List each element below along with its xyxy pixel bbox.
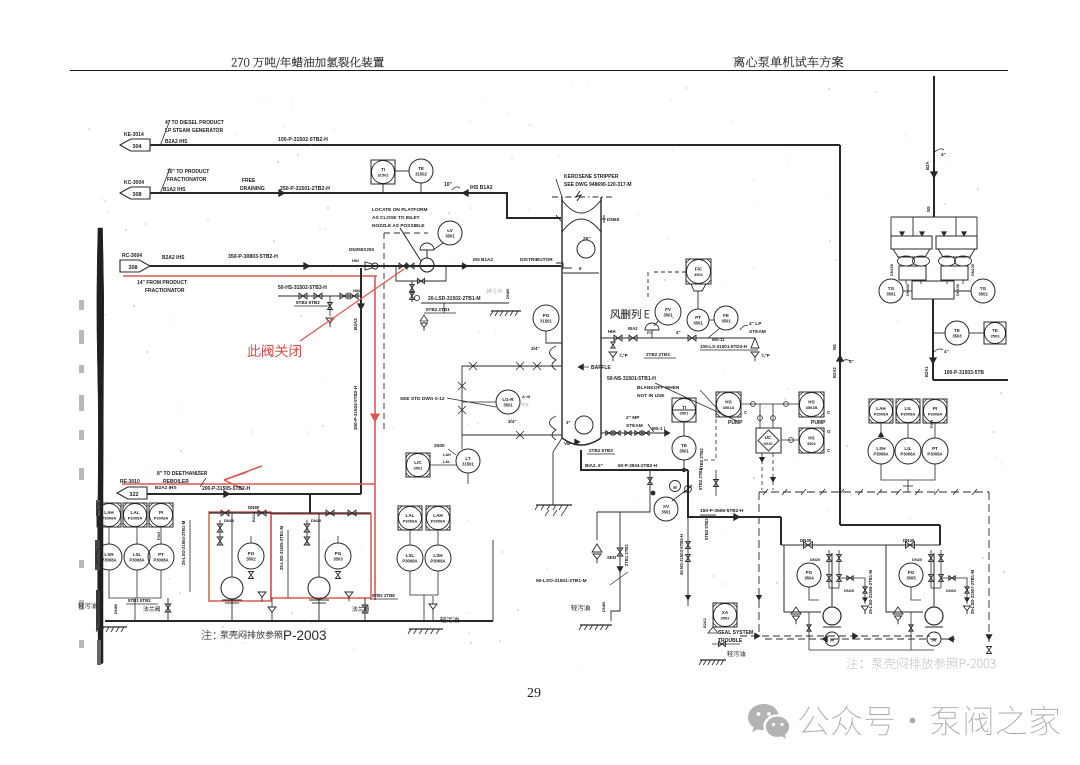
svg-text:308: 308: [128, 265, 137, 271]
svg-text:LAH: LAH: [876, 406, 886, 411]
svg-text:3501: 3501: [694, 272, 704, 277]
svg-text:3503: 3503: [991, 334, 1001, 339]
svg-text:RE-3010: RE-3010: [120, 479, 140, 485]
svg-text:20-LSD-31502-2TB1-M: 20-LSD-31502-2TB1-M: [428, 296, 481, 302]
svg-text:DRAINING: DRAINING: [240, 186, 265, 192]
svg-text:3502: 3502: [246, 557, 256, 562]
svg-text:DN350X200: DN350X200: [349, 247, 374, 252]
svg-text:B2A1: B2A1: [924, 366, 929, 377]
svg-text:3504: 3504: [804, 576, 814, 581]
svg-text:B2A2: B2A2: [703, 618, 707, 628]
svg-text:25-LSD-31505-2TB1-M: 25-LSD-31505-2TB1-M: [279, 526, 284, 570]
svg-text:3501: 3501: [679, 449, 689, 454]
svg-text:HIN: HIN: [352, 258, 359, 263]
svg-text:31501: 31501: [540, 319, 552, 324]
svg-text:5TB3 5TB2: 5TB3 5TB2: [704, 518, 709, 540]
svg-text:LSH: LSH: [876, 446, 886, 451]
svg-text:31502: 31502: [377, 173, 389, 178]
svg-text:PG: PG: [335, 551, 342, 556]
svg-text:PUMP: PUMP: [728, 420, 743, 426]
svg-text:LIC: LIC: [414, 460, 422, 465]
svg-text:KE-3014: KE-3014: [124, 132, 144, 138]
svg-text:50-HS-31502-5TB3-H: 50-HS-31502-5TB3-H: [278, 285, 327, 291]
svg-text:308: 308: [132, 192, 141, 198]
svg-text:4": 4": [849, 359, 854, 364]
svg-text:TE: TE: [992, 328, 998, 333]
svg-text:HIH: HIH: [608, 329, 616, 334]
svg-text:3503: 3503: [952, 334, 962, 339]
svg-text:DN40: DN40: [903, 538, 915, 543]
svg-text:3505: 3505: [906, 576, 916, 581]
svg-text:FREE: FREE: [242, 178, 256, 184]
svg-text:322: 322: [129, 492, 138, 498]
svg-text:DN80: DN80: [601, 601, 606, 612]
svg-text:VB: VB: [564, 441, 571, 446]
svg-text:4": 4": [676, 330, 681, 335]
svg-text:TE: TE: [954, 328, 960, 333]
svg-text:DN20: DN20: [912, 557, 923, 562]
svg-text:2TB2 5TB3: 2TB2 5TB3: [589, 448, 613, 453]
svg-text:NS: NS: [832, 344, 837, 350]
svg-text:P3008A: P3008A: [129, 558, 144, 563]
svg-text:PAH: PAH: [156, 532, 161, 540]
svg-text:31502: 31502: [415, 172, 427, 177]
svg-text:LIL: LIL: [905, 406, 912, 411]
svg-text:100-P-31502-5TB2-H: 100-P-31502-5TB2-H: [278, 137, 328, 143]
svg-text:PG: PG: [806, 570, 813, 575]
svg-text:3501: 3501: [503, 403, 513, 408]
svg-text:P3008A: P3008A: [102, 516, 117, 521]
svg-text:DN100: DN100: [956, 284, 960, 296]
svg-text:XA: XA: [722, 610, 729, 615]
svg-text:TE: TE: [681, 443, 687, 448]
svg-text:REBOILER: REBOILER: [163, 479, 189, 485]
svg-text:B2A2: B2A2: [832, 367, 837, 378]
svg-text:P3008A: P3008A: [901, 412, 916, 417]
svg-text:3501: 3501: [807, 441, 817, 446]
svg-text:LIL: LIL: [905, 446, 912, 451]
svg-text:BAFFLE: BAFFLE: [591, 365, 611, 371]
svg-text:3501: 3501: [886, 292, 896, 297]
svg-text:PAH: PAH: [929, 420, 934, 428]
svg-text:LOCATE ON PLATFORM: LOCATE ON PLATFORM: [372, 207, 428, 213]
svg-text:200-P-31505-5TB2-H: 200-P-31505-5TB2-H: [202, 486, 250, 492]
svg-text:B2A2 IHS: B2A2 IHS: [162, 255, 185, 261]
svg-text:25-LSO-31504-2TB1-M: 25-LSO-31504-2TB1-M: [181, 520, 186, 565]
svg-text:P3008A: P3008A: [928, 412, 943, 417]
svg-text:3501A: 3501A: [723, 405, 735, 410]
svg-text:DN20: DN20: [224, 518, 235, 523]
svg-text:TG: TG: [980, 286, 987, 291]
svg-text:LAH: LAH: [433, 513, 443, 518]
svg-text:DN100: DN100: [971, 264, 975, 276]
svg-text:100-P-31503-5TB: 100-P-31503-5TB: [944, 370, 984, 376]
svg-text:P3008A: P3008A: [154, 516, 169, 521]
svg-text:10" TO PRODUCT: 10" TO PRODUCT: [167, 169, 209, 175]
svg-text:AS CLOSE TO INLET: AS CLOSE TO INLET: [372, 215, 420, 221]
svg-text:PT: PT: [932, 446, 938, 451]
svg-text:TI: TI: [381, 167, 385, 172]
svg-text:3502: 3502: [978, 292, 988, 297]
svg-text:MS-11: MS-11: [712, 337, 725, 342]
svg-text:14" FROM PRODUCT: 14" FROM PRODUCT: [137, 280, 187, 286]
svg-text:KC-3004: KC-3004: [124, 180, 144, 186]
svg-text:25-LSD-31506-2TB1-M: 25-LSD-31506-2TB1-M: [868, 570, 873, 614]
svg-text:350-P-30803-5TB2-H: 350-P-30803-5TB2-H: [228, 254, 278, 260]
svg-text:P3008A: P3008A: [874, 412, 889, 417]
svg-text:304: 304: [132, 144, 142, 150]
svg-text:P3008A: P3008A: [431, 519, 446, 524]
svg-text:PUMP: PUMP: [811, 420, 826, 426]
svg-text:B2A: B2A: [925, 162, 930, 170]
svg-text:MS B1A2: MS B1A2: [473, 257, 493, 262]
svg-text:C: C: [827, 410, 831, 415]
svg-text:LAH: LAH: [443, 453, 451, 457]
svg-text:FIC: FIC: [695, 267, 703, 272]
svg-text:TG: TG: [888, 286, 895, 291]
svg-text:B1A2 IHS: B1A2 IHS: [163, 187, 186, 193]
svg-text:BIA2: BIA2: [628, 326, 638, 331]
svg-text:3501: 3501: [721, 319, 731, 324]
svg-text:DN50: DN50: [607, 217, 620, 223]
svg-text:¾"P: ¾"P: [619, 353, 628, 358]
svg-text:PT: PT: [158, 552, 164, 557]
svg-text:LSL: LSL: [133, 552, 142, 557]
svg-text:4": 4": [941, 152, 946, 157]
svg-text:LT: LT: [465, 456, 470, 461]
svg-text:¾"P: ¾"P: [761, 353, 770, 358]
svg-text:XV: XV: [663, 504, 670, 509]
svg-text:P3008A: P3008A: [101, 558, 116, 563]
svg-text:HS: HS: [808, 436, 814, 441]
svg-text:4" LP: 4" LP: [749, 321, 762, 327]
svg-text:TE: TE: [418, 166, 424, 171]
svg-text:25-LSD-31507-2TB1-M: 25-LSD-31507-2TB1-M: [970, 570, 975, 614]
svg-text:3/4": 3/4": [508, 419, 517, 424]
svg-text:PG: PG: [908, 570, 915, 575]
svg-text:NS: NS: [926, 206, 931, 212]
svg-text:NOT IN USE: NOT IN USE: [637, 393, 665, 399]
svg-text:5TB1 5TB2: 5TB1 5TB2: [128, 598, 151, 603]
svg-text:LP STEAM GENERATOR: LP STEAM GENERATOR: [165, 128, 223, 134]
svg-text:3501: 3501: [445, 234, 455, 239]
svg-text:2TB2 2TB3: 2TB2 2TB3: [646, 352, 670, 357]
svg-text:50-NS-31501-5TB1-H: 50-NS-31501-5TB1-H: [607, 376, 656, 382]
svg-text:B2A2 IHS: B2A2 IHS: [155, 485, 177, 491]
svg-text:SEE STD DWG 0-12: SEE STD DWG 0-12: [400, 396, 445, 402]
svg-text:STEAM: STEAM: [749, 329, 766, 335]
svg-text:SEN: SEN: [607, 555, 616, 560]
svg-text:250-P-31501-2TB2-H: 250-P-31501-2TB2-H: [280, 186, 330, 192]
svg-text:B2A2: B2A2: [251, 511, 256, 522]
svg-text:C: C: [827, 448, 831, 453]
svg-text:LAL: LAL: [443, 460, 451, 464]
svg-text:50-P-3504-2TB2-H: 50-P-3504-2TB2-H: [618, 463, 658, 468]
svg-text:RC-3004: RC-3004: [122, 253, 142, 259]
svg-text:LSL: LSL: [406, 553, 415, 558]
svg-text:2000: 2000: [434, 443, 445, 449]
svg-text:DN20: DN20: [946, 588, 957, 593]
svg-text:DISTRIBUTOR: DISTRIBUTOR: [520, 257, 553, 263]
svg-text:P3008A: P3008A: [128, 516, 143, 521]
svg-text:DN80: DN80: [248, 505, 260, 510]
svg-text:HS: HS: [808, 400, 814, 405]
svg-text:5TB3 5TB2: 5TB3 5TB2: [296, 300, 320, 305]
svg-text:TROUBLE: TROUBLE: [718, 638, 743, 644]
svg-text:P-2003: P-2003: [283, 628, 327, 643]
svg-text:DN20: DN20: [844, 588, 855, 593]
svg-text:2TB1 2TB2: 2TB1 2TB2: [624, 544, 629, 566]
svg-text:10": 10": [444, 182, 453, 188]
svg-text:50-LSO-31501-2TB1-M: 50-LSO-31501-2TB1-M: [536, 578, 587, 584]
svg-text:DN40: DN40: [800, 538, 812, 543]
svg-text:DN80: DN80: [505, 288, 510, 299]
svg-text:HIN: HIN: [353, 288, 360, 293]
svg-text:LAH: LAH: [104, 510, 114, 515]
svg-text:8" TO DEETHANIZER: 8" TO DEETHANIZER: [157, 471, 208, 477]
svg-text:SEAL SYSTEM: SEAL SYSTEM: [718, 630, 753, 636]
svg-text:LSH: LSH: [433, 553, 443, 558]
svg-text:300-P-31504-5TB2-H: 300-P-31504-5TB2-H: [353, 385, 358, 430]
svg-text:PT: PT: [695, 315, 701, 320]
svg-text:100-LS-31501-5TD3-H: 100-LS-31501-5TD3-H: [700, 344, 748, 349]
svg-text:UC: UC: [765, 435, 772, 440]
svg-text:31501: 31501: [462, 462, 474, 467]
svg-text:150-P-3506-5TB2-H: 150-P-3506-5TB2-H: [700, 508, 744, 514]
svg-text:TI: TI: [682, 405, 686, 410]
svg-text:DN80: DN80: [113, 603, 118, 614]
svg-text:A~B: A~B: [522, 394, 530, 399]
svg-text:3/4": 3/4": [531, 346, 540, 351]
svg-text:LSH: LSH: [104, 552, 114, 557]
svg-text:5TB2 2TB2: 5TB2 2TB2: [698, 468, 703, 490]
svg-text:5TB2 2TB1: 5TB2 2TB1: [426, 307, 450, 312]
svg-text:PG: PG: [543, 313, 550, 318]
svg-text:PI: PI: [159, 510, 163, 515]
svg-text:FE: FE: [723, 313, 729, 318]
svg-text:BIA2, 6": BIA2, 6": [585, 463, 603, 468]
svg-text:FC: FC: [647, 331, 652, 335]
svg-text:3502: 3502: [721, 616, 731, 621]
svg-text:P3008A: P3008A: [430, 559, 445, 564]
svg-text:FRACTIONATOR: FRACTIONATOR: [167, 177, 207, 183]
svg-text:3501: 3501: [661, 510, 671, 515]
svg-text:5TB2 2TB2: 5TB2 2TB2: [699, 448, 704, 470]
svg-text:LG-R: LG-R: [502, 397, 514, 402]
svg-text:B2A2 IHS: B2A2 IHS: [165, 139, 188, 145]
svg-text:FV: FV: [665, 307, 672, 312]
svg-text:DN20: DN20: [311, 518, 322, 523]
svg-text:LV: LV: [447, 228, 453, 233]
svg-text:P3008A: P3008A: [873, 452, 888, 457]
svg-text:M: M: [830, 638, 834, 643]
svg-text:HS: HS: [725, 400, 731, 405]
svg-text:4" TO DIESEL PRODUCT: 4" TO DIESEL PRODUCT: [165, 120, 224, 126]
svg-text:3503: 3503: [333, 557, 343, 562]
svg-text:4": 4": [944, 349, 949, 354]
svg-text:PG: PG: [248, 551, 255, 556]
svg-text:3501: 3501: [693, 321, 703, 326]
svg-text:C: C: [744, 410, 748, 415]
svg-text:P3008A: P3008A: [402, 559, 417, 564]
svg-text:3501: 3501: [414, 466, 424, 471]
svg-text:5TB2 2TB8: 5TB2 2TB8: [372, 593, 395, 598]
svg-text:LAL: LAL: [406, 513, 415, 518]
svg-text:B2A2: B2A2: [353, 318, 358, 330]
svg-text:DN400: DN400: [906, 284, 910, 296]
svg-text:P3008A: P3008A: [403, 519, 418, 524]
svg-text:P3008A: P3008A: [153, 558, 168, 563]
svg-text:20": 20": [583, 236, 591, 242]
svg-text:O: O: [827, 429, 831, 434]
svg-text:PI: PI: [933, 406, 937, 411]
svg-text:M: M: [673, 485, 677, 490]
svg-text:SEE DWG 948690-120-317-M: SEE DWG 948690-120-317-M: [564, 182, 632, 188]
svg-text:3501B: 3501B: [806, 405, 818, 410]
svg-text:MS-1 |: MS-1 |: [652, 426, 665, 431]
svg-text:P3008A: P3008A: [927, 452, 942, 457]
svg-text:FRACTIONATOR: FRACTIONATOR: [145, 288, 185, 294]
svg-text:3": 3": [566, 420, 571, 425]
svg-text:P3008A: P3008A: [900, 452, 915, 457]
svg-text:M: M: [932, 638, 936, 643]
svg-text:IHS B1A2: IHS B1A2: [470, 185, 493, 191]
svg-text:DN20: DN20: [810, 557, 821, 562]
svg-text:2" MP: 2" MP: [626, 415, 640, 421]
svg-text:3010: 3010: [764, 441, 774, 446]
svg-text:KEROSENE STRIPPER: KEROSENE STRIPPER: [564, 174, 619, 180]
svg-text:3501: 3501: [663, 313, 673, 318]
svg-text:3501: 3501: [680, 411, 690, 416]
svg-text:NOZZLE AS POSSIBLE: NOZZLE AS POSSIBLE: [372, 223, 425, 229]
svg-text:6: 6: [579, 266, 582, 271]
svg-text:LAL: LAL: [131, 510, 140, 515]
svg-text:STEAM: STEAM: [626, 423, 643, 429]
svg-text:BLANKOFF WHEN: BLANKOFF WHEN: [637, 385, 680, 391]
svg-text:DN150: DN150: [890, 264, 894, 276]
